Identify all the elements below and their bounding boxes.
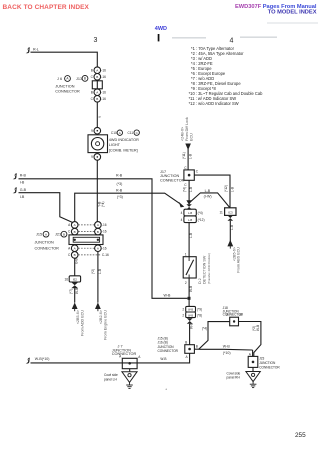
svg-text:*12 : w/o ADD Indicator SW: *12 : w/o ADD Indicator SW	[189, 101, 239, 106]
pin circle C11 below light	[91, 154, 100, 161]
wire arrow to J17	[182, 149, 192, 170]
svg-text:A: A	[249, 352, 252, 356]
svg-text:(*2): (*2)	[91, 269, 95, 274]
svg-text:(*11): (*11)	[182, 152, 186, 159]
svg-text:C: C	[91, 97, 94, 101]
section tick mark	[158, 34, 160, 41]
svg-text:L-B: L-B	[188, 211, 192, 215]
svg-text:-16: -16	[101, 75, 106, 79]
connector box IE2	[64, 276, 80, 282]
svg-text:C10: C10	[111, 131, 117, 135]
svg-text:G-B: G-B	[20, 188, 27, 192]
svg-text:-16: -16	[101, 68, 106, 72]
svg-text:*: *	[166, 388, 168, 392]
junction connector circles below twin rect	[91, 89, 107, 102]
svg-text:B: B	[63, 232, 65, 236]
wire into J23 top from left branch	[252, 350, 254, 356]
text From ABS ECU	[232, 247, 240, 273]
svg-text:(*4): (*4)	[101, 202, 105, 207]
wire J17 bottom down	[183, 180, 193, 201]
junction connector J17 box	[184, 170, 194, 180]
svg-text:(*4): (*4)	[198, 211, 203, 215]
svg-text:3: 3	[94, 37, 98, 44]
wire J23 to ground triangle RH	[252, 367, 254, 371]
svg-text:-16: -16	[102, 230, 107, 234]
svg-text:(*12): (*12)	[198, 218, 205, 222]
svg-text:J15: J15	[36, 233, 42, 237]
svg-text:9: 9	[91, 129, 93, 133]
text Cowl side panel RH	[227, 371, 241, 379]
svg-text:B: B	[97, 230, 99, 234]
svg-text:CONNECTOR: CONNECTOR	[158, 349, 179, 353]
wire G-B line2 to junction circle A	[19, 193, 74, 223]
svg-text:IC3: IC3	[228, 210, 233, 214]
svg-text:-16: -16	[101, 90, 106, 94]
svg-text:(*10): (*10)	[223, 351, 231, 355]
arrowhead J17 bottom into blob	[186, 200, 191, 205]
svg-text:(I-W): (I-W)	[204, 195, 212, 199]
svg-text:C: C	[196, 170, 199, 174]
svg-text:R-B: R-B	[116, 173, 123, 177]
svg-text:W-B: W-B	[75, 288, 79, 294]
header link BACK TO CHAPTER INDEX	[3, 4, 90, 11]
junction connector J15/J21 row1 circles	[68, 222, 107, 229]
gray dashed separator left	[172, 37, 206, 39]
svg-text:W-B: W-B	[160, 357, 166, 361]
stacked wire color boxes W-B	[182, 306, 202, 317]
svg-text:W-B(*10): W-B(*10)	[35, 357, 50, 361]
text From Engine ECU	[99, 310, 107, 340]
svg-text:B: B	[74, 253, 76, 257]
svg-text:B: B	[96, 75, 98, 79]
legend J15 J16 junction connector	[158, 336, 179, 353]
svg-text:J 6: J 6	[57, 77, 62, 81]
svg-text:L-B: L-B	[98, 269, 102, 274]
svg-text:W-B: W-B	[189, 286, 193, 292]
svg-text:A: A	[96, 90, 99, 94]
svg-text:-16: -16	[102, 223, 107, 227]
svg-text:From Engine ECU: From Engine ECU	[104, 310, 108, 340]
svg-text:CONNECTOR: CONNECTOR	[55, 89, 80, 93]
text 4WD INDICATOR LIGHT [COMB. METER]	[109, 138, 139, 153]
svg-text:(*12): (*12)	[224, 185, 228, 192]
svg-text:9: 9	[91, 155, 93, 159]
svg-text:B: B	[185, 341, 187, 345]
junction dot W-B	[188, 297, 191, 300]
svg-text:From Diff Lock: From Diff Lock	[185, 117, 189, 141]
from-arrow ABS ECU	[227, 240, 233, 247]
junction connector row4 circle left with dashed tail	[68, 252, 109, 259]
junction connector J6/J13 twin rectangles	[92, 81, 102, 89]
junction connector J6/J13 circles top	[91, 67, 107, 80]
svg-text:C: C	[184, 166, 187, 170]
svg-text:B: B	[91, 68, 93, 72]
svg-text:A: A	[68, 246, 71, 250]
svg-text:B: B	[91, 90, 93, 94]
chassis ground marks LH	[126, 382, 133, 388]
svg-text:L-B: L-B	[230, 225, 234, 230]
svg-text:D 2: D 2	[198, 278, 202, 284]
svg-text:4WD: 4WD	[155, 26, 167, 32]
svg-text:A: A	[74, 246, 77, 250]
svg-text:From ABS ECU: From ABS ECU	[237, 247, 241, 273]
svg-text:CONNECTOR: CONNECTOR	[112, 352, 137, 356]
junction connector J18 box	[226, 313, 241, 326]
ground triangle RH	[246, 372, 260, 382]
junction connector bus bar	[69, 235, 103, 245]
wire IC3 down to from-arrow	[230, 221, 234, 246]
svg-text:2: 2	[182, 307, 184, 311]
svg-text:R-B: R-B	[20, 174, 27, 178]
svg-text:-16: -16	[102, 246, 107, 250]
svg-text:ECU: ECU	[190, 133, 194, 141]
junction connector row3 circles	[68, 245, 107, 252]
junction connector J7 box	[119, 355, 141, 369]
svg-text:(*4): (*4)	[183, 187, 187, 192]
svg-text:JUNCTION: JUNCTION	[55, 85, 74, 89]
svg-text:I-B: I-B	[20, 181, 25, 185]
svg-text:C: C	[91, 75, 94, 79]
wire J7 to ground triangle LH	[129, 369, 131, 372]
harness join bowtie below W-B boxes	[187, 318, 193, 324]
connector IC3 box	[219, 208, 236, 216]
from-arrow right column	[95, 302, 101, 309]
svg-text:B: B	[74, 230, 76, 234]
svg-text:DETECTION SW: DETECTION SW	[203, 255, 207, 284]
svg-text:A: A	[45, 232, 47, 236]
svg-text:2: 2	[185, 281, 187, 285]
svg-text:W-B: W-B	[164, 293, 172, 297]
svg-text:A: A	[96, 68, 99, 72]
junction connector J23 box	[248, 352, 258, 367]
svg-text:R-B: R-B	[116, 189, 123, 193]
svg-text:[COMB. METER]: [COMB. METER]	[109, 149, 138, 153]
harness join bowtie below IC3	[228, 215, 234, 220]
wire D2 to W-B junction dot	[185, 278, 193, 306]
text From ADD ECU	[76, 310, 84, 336]
wire J16 right to J23 left	[199, 327, 253, 355]
legend J23 junction connector	[259, 357, 280, 370]
footnote list	[189, 46, 263, 106]
svg-text:From ADD ECU: From ADD ECU	[80, 310, 84, 336]
text Cowl side panel LH	[104, 373, 118, 381]
legend J15 A J21 B junction connector	[35, 231, 67, 250]
wire J18 right down to J23	[239, 322, 261, 357]
svg-text:panel RH: panel RH	[227, 376, 241, 380]
legend J18 junction connector	[223, 306, 244, 317]
svg-text:A: A	[97, 223, 100, 227]
svg-text:B: B	[196, 345, 198, 349]
svg-text:B: B	[96, 97, 98, 101]
chassis ground marks RH	[250, 382, 257, 388]
wire from light down to junction row1	[97, 160, 105, 221]
header TO MODEL INDEX	[268, 9, 317, 15]
svg-text:R-L: R-L	[33, 47, 39, 51]
wire J17 right to IC3	[194, 170, 234, 208]
svg-text:JUNCTION: JUNCTION	[35, 240, 54, 244]
wire from junction circle A up and right to arrow junction	[75, 189, 180, 222]
wire down to from-arrow left	[69, 288, 79, 303]
svg-text:L-B: L-B	[205, 189, 211, 193]
D2 detection switch box	[183, 257, 196, 278]
wire L-B alternate path with diagonals	[189, 189, 230, 208]
svg-text:L-B: L-B	[188, 218, 192, 222]
bracket G-B / I-B	[14, 188, 27, 199]
svg-text:C-16: C-16	[102, 253, 109, 257]
svg-text:TO MODEL INDEX: TO MODEL INDEX	[268, 9, 317, 15]
svg-text:A: A	[97, 246, 100, 250]
junction connector J16 box	[185, 341, 198, 359]
svg-text:255: 255	[295, 432, 306, 439]
svg-text:A: A	[74, 223, 77, 227]
svg-text:11: 11	[219, 210, 223, 214]
svg-text:W-B: W-B	[223, 344, 231, 348]
from-arrow left column	[72, 302, 78, 309]
text D2 DETECTION SW (Transfer 4WD Position) vertical	[198, 253, 211, 284]
svg-text:B: B	[84, 77, 86, 81]
svg-text:W-B: W-B	[188, 314, 193, 317]
wire R-L to junction	[31, 52, 98, 67]
svg-text:IE2: IE2	[73, 277, 78, 281]
svg-text:A: A	[66, 77, 69, 81]
wire R-B line1 across and down to W-B junction	[19, 173, 188, 298]
legend J7 junction connector	[112, 344, 137, 356]
text From Diff Lock ECU vertical	[180, 117, 193, 141]
4WD indicator light box	[88, 135, 108, 153]
svg-text:J21: J21	[55, 233, 61, 237]
svg-text:panel LH: panel LH	[104, 377, 117, 381]
svg-text:-16: -16	[101, 97, 106, 101]
faint separator dash top right	[267, 22, 318, 24]
gray dashed separator right	[240, 36, 277, 38]
bracket R-B / I-B	[14, 174, 26, 185]
svg-text:C: C	[68, 253, 71, 257]
svg-text:A: A	[68, 223, 71, 227]
svg-text:(*3): (*3)	[117, 182, 123, 186]
svg-text:C: C	[136, 131, 139, 135]
svg-text:W-B: W-B	[256, 325, 260, 331]
svg-text:G-B: G-B	[75, 258, 79, 264]
bracket R-L entry	[27, 47, 39, 53]
svg-text:LIGHT: LIGHT	[109, 143, 121, 147]
svg-text:(*8): (*8)	[197, 313, 202, 317]
wire down to J16	[189, 323, 193, 345]
svg-text:2: 2	[182, 313, 184, 317]
svg-text:C: C	[68, 230, 71, 234]
wire left column down to connector box	[75, 258, 79, 276]
svg-text:L-B: L-B	[189, 154, 193, 159]
svg-text:A: A	[185, 355, 188, 359]
legend J17 junction connector	[160, 170, 185, 182]
svg-text:4: 4	[181, 211, 183, 215]
legend C10 A C11 C	[111, 130, 139, 135]
wire down to meter, label Y	[97, 102, 102, 127]
pin circle C10	[91, 127, 100, 134]
svg-text:16: 16	[64, 277, 68, 281]
svg-text:W-B: W-B	[189, 323, 193, 329]
svg-text:1: 1	[185, 253, 187, 257]
svg-text:<24B-6>: <24B-6>	[180, 127, 184, 141]
wire J16 right with branch	[194, 322, 229, 350]
harness join bowtie above stacked boxes	[186, 204, 191, 209]
svg-text:(*9): (*9)	[197, 307, 202, 311]
wire down to D2 switch	[185, 223, 193, 257]
svg-text:A: A	[119, 131, 121, 135]
ground triangle LH	[122, 372, 137, 383]
junction connector row2 circles	[68, 228, 107, 235]
svg-text:L-B: L-B	[230, 187, 234, 192]
stacked wire color boxes L-B	[181, 209, 205, 222]
svg-text:C11: C11	[128, 131, 134, 135]
harness join bowtie left column	[71, 282, 78, 288]
wire right column down to from-arrow	[91, 252, 102, 303]
main ground wire W-B	[27, 353, 190, 363]
svg-text:L-B: L-B	[189, 187, 193, 192]
svg-text:C: C	[184, 183, 187, 187]
arrowhead into junction blob	[179, 202, 185, 208]
from-arrow down into J17	[185, 144, 191, 151]
svg-text:4: 4	[181, 218, 183, 222]
svg-text:Y: Y	[98, 115, 102, 118]
header EWD307F Pages From Manual	[235, 4, 317, 10]
svg-text:CONNECTOR: CONNECTOR	[259, 365, 280, 369]
svg-text:A: A	[138, 355, 141, 359]
legend J6 A J13 B junction connector	[55, 76, 88, 94]
svg-text:4WD INDICATOR: 4WD INDICATOR	[109, 138, 139, 142]
svg-text:I-B: I-B	[20, 195, 25, 199]
svg-text:(*3): (*3)	[117, 195, 123, 199]
svg-text:(Transfer 4WD Position): (Transfer 4WD Position)	[207, 253, 211, 284]
svg-text:B: B	[240, 313, 242, 317]
svg-text:L-B: L-B	[189, 233, 193, 238]
svg-text:BACK TO CHAPTER INDEX: BACK TO CHAPTER INDEX	[3, 4, 90, 11]
svg-text:CONNECTOR: CONNECTOR	[160, 178, 185, 182]
svg-text:W-B: W-B	[188, 308, 193, 311]
svg-text:J13: J13	[76, 77, 82, 81]
svg-text:(*4): (*4)	[202, 327, 207, 331]
svg-text:(*7): (*7)	[69, 289, 73, 294]
svg-text:4: 4	[230, 38, 234, 45]
svg-text:CONNECTOR: CONNECTOR	[35, 246, 60, 250]
